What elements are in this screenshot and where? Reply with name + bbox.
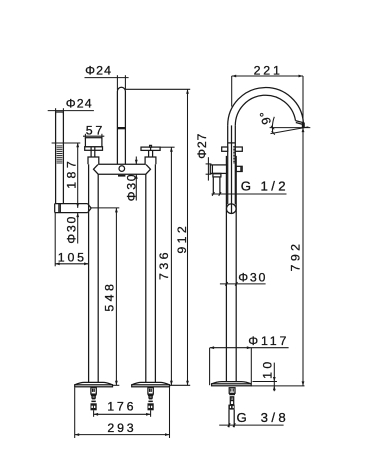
svg-text:1/2: 1/2	[261, 179, 290, 194]
svg-text:Φ27: Φ27	[195, 133, 209, 159]
svg-text:Φ30: Φ30	[238, 270, 267, 284]
svg-text:187: 187	[65, 158, 79, 189]
svg-text:736: 736	[157, 249, 171, 280]
svg-text:Φ24: Φ24	[66, 97, 93, 111]
svg-text:Φ117: Φ117	[248, 334, 289, 348]
svg-text:Φ30: Φ30	[64, 215, 78, 244]
svg-text:293: 293	[107, 421, 136, 435]
svg-text:912: 912	[175, 223, 189, 254]
svg-text:105: 105	[58, 251, 87, 265]
svg-text:548: 548	[102, 281, 116, 312]
svg-text:221: 221	[254, 63, 283, 77]
svg-text:Φ24: Φ24	[85, 64, 112, 78]
svg-text:3/8: 3/8	[261, 410, 290, 425]
svg-text:10: 10	[260, 358, 274, 379]
svg-text:176: 176	[107, 400, 136, 414]
svg-text:G: G	[241, 179, 255, 194]
svg-text:G: G	[237, 410, 251, 425]
svg-text:57: 57	[86, 123, 105, 137]
svg-text:792: 792	[288, 241, 302, 272]
svg-text:Φ30: Φ30	[124, 173, 138, 202]
